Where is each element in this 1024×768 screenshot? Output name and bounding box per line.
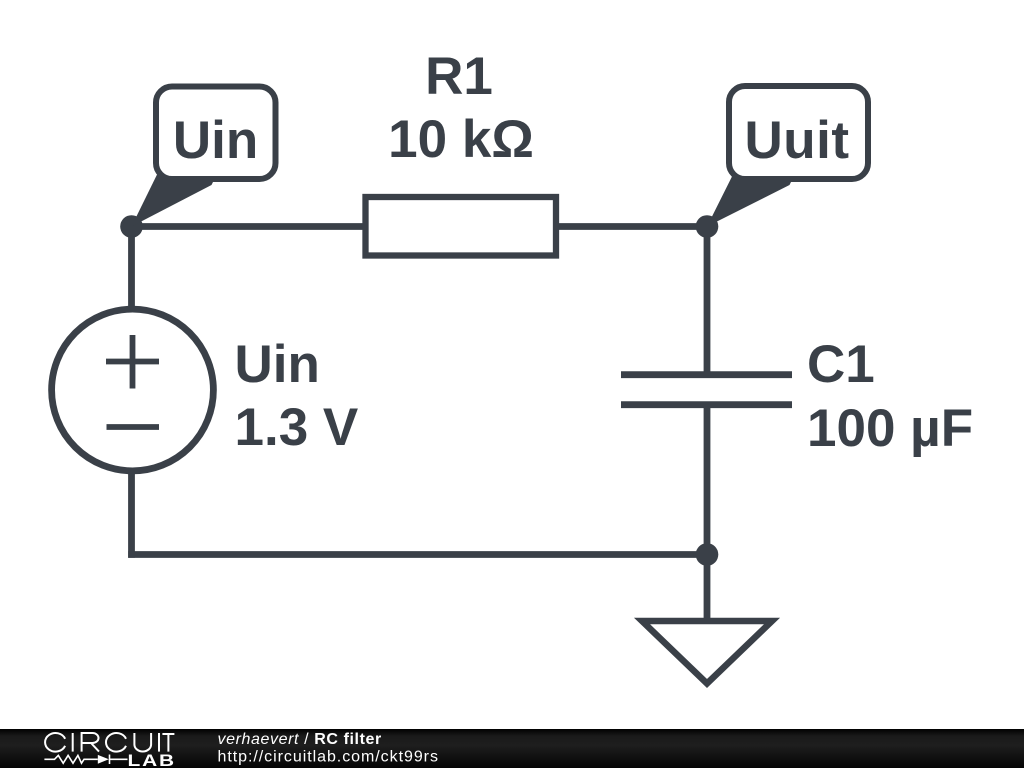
wire: node A down to voltage source top (128, 227, 135, 311)
svg-text:LAB: LAB (128, 751, 177, 768)
svg-text:verhaevert / RC filter: verhaevert / RC filter (218, 731, 382, 748)
node flag Uuit callout box (729, 86, 868, 179)
capacitor C1 bottom plate (621, 401, 792, 408)
wire: node B down to capacitor C1 top plate (704, 227, 711, 375)
node C junction dot (696, 543, 719, 566)
svg-text:10 kΩ: 10 kΩ (388, 110, 534, 169)
svg-text:http://circuitlab.com/ckt99rs: http://circuitlab.com/ckt99rs (218, 749, 439, 766)
voltage source minus sign (107, 424, 160, 430)
svg-text:1.3 V: 1.3 V (235, 398, 359, 457)
CircuitLab logo wordmark CIRCUIT (drawn thin) (45, 733, 174, 752)
svg-text:Uin: Uin (235, 335, 320, 394)
svg-text:R1: R1 (425, 47, 493, 106)
svg-text:Uuit: Uuit (744, 111, 849, 170)
wire: voltage source bottom down to bottom rail corner (128, 470, 135, 558)
voltage source V1 circle (52, 309, 214, 471)
capacitor C1 top plate (621, 371, 792, 378)
node flag Uin callout box (156, 87, 276, 180)
wire: node C down to ground symbol (704, 555, 711, 622)
node B junction dot (696, 215, 719, 238)
wire: node A to resistor R1 left terminal (132, 223, 369, 230)
node flag Uuit callout tail (707, 171, 793, 227)
svg-text:100 µF: 100 µF (807, 399, 973, 458)
wire: capacitor C1 bottom plate down to node C (704, 405, 711, 555)
voltage source plus sign (106, 335, 159, 389)
svg-text:C1: C1 (807, 335, 875, 394)
node A junction dot (120, 215, 143, 238)
ground symbol (642, 621, 772, 684)
CircuitLab logo resistor-diode squiggle (44, 755, 127, 765)
svg-text:Uin: Uin (173, 111, 258, 170)
wire: bottom rail from source corner to node C (128, 551, 707, 558)
resistor R1 body (366, 197, 557, 256)
footer bar (0, 729, 1024, 768)
node flag Uin callout tail (132, 171, 216, 227)
wire: resistor R1 right terminal to node B (553, 223, 707, 230)
